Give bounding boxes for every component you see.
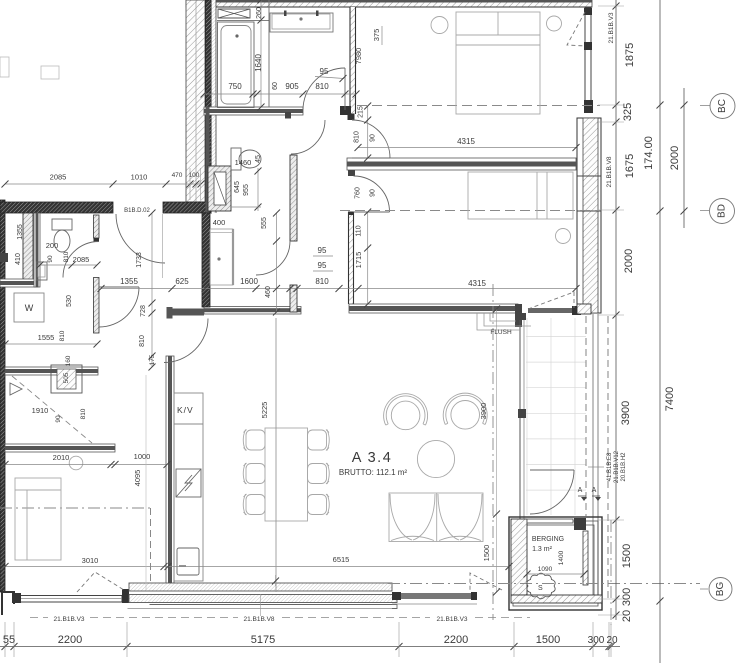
svg-text:B1B.D.02: B1B.D.02 bbox=[124, 208, 150, 214]
svg-text:20.B1B.H2: 20.B1B.H2 bbox=[621, 452, 627, 482]
svg-text:4315: 4315 bbox=[457, 137, 475, 146]
vchain left mid bbox=[151, 213, 153, 367]
svg-text:S: S bbox=[538, 585, 543, 592]
axis BD bbox=[340, 210, 600, 212]
armchair 2 bbox=[443, 393, 487, 429]
glass facade living-terrace bbox=[519, 315, 521, 592]
svg-text:2000: 2000 bbox=[623, 249, 635, 273]
window 21.B1B.V8 band1 bbox=[129, 583, 392, 591]
svg-text:1500: 1500 bbox=[621, 544, 633, 568]
svg-text:905: 905 bbox=[285, 82, 299, 91]
svg-text:21.B1B.V8: 21.B1B.V8 bbox=[243, 616, 274, 623]
vchain kitchen bbox=[276, 213, 278, 312]
svg-text:810: 810 bbox=[315, 82, 329, 91]
window 21.B1B.V3 right bbox=[392, 592, 401, 600]
door wc bbox=[291, 120, 325, 154]
svg-text:2200: 2200 bbox=[58, 634, 82, 646]
grid bubble BG bbox=[700, 588, 708, 590]
window 21.B1B.V3 left bbox=[15, 596, 122, 603]
wall right exterior hatched bbox=[577, 118, 601, 313]
svg-text:1640: 1640 bbox=[254, 54, 263, 72]
svg-text:460: 460 bbox=[265, 286, 272, 298]
svg-text:175: 175 bbox=[149, 354, 156, 365]
dim line 5225 bbox=[275, 318, 277, 592]
berging outer bbox=[509, 517, 602, 610]
svg-text:BG: BG bbox=[715, 582, 726, 597]
sliding door bedroom2 terrace bbox=[528, 308, 573, 313]
axis BC bbox=[357, 105, 600, 107]
sofa bbox=[389, 493, 483, 542]
svg-text:1000: 1000 bbox=[134, 452, 151, 461]
kitchen counter bbox=[210, 229, 233, 285]
W closet box bbox=[14, 293, 44, 322]
svg-text:1733: 1733 bbox=[136, 252, 143, 268]
door bathroom bbox=[303, 68, 345, 110]
berging left wall bbox=[511, 519, 527, 595]
svg-text:810: 810 bbox=[315, 277, 329, 286]
dim chain entry 2085/1010/470/100 bbox=[5, 183, 201, 185]
svg-text:W: W bbox=[25, 303, 34, 313]
svg-text:55: 55 bbox=[3, 634, 15, 646]
svg-text:2085: 2085 bbox=[73, 255, 90, 264]
bed bedroom1 bbox=[431, 12, 562, 114]
axis vertical living bbox=[492, 284, 494, 620]
door wc2 bbox=[63, 242, 99, 278]
wall entry north bbox=[0, 202, 113, 213]
wall storage north bbox=[5, 367, 98, 375]
door storage bbox=[99, 287, 139, 327]
svg-text:20: 20 bbox=[621, 610, 633, 622]
wall wc2 bottom bbox=[0, 279, 38, 287]
dashed opening bed3 bbox=[150, 508, 152, 583]
svg-text:5225: 5225 bbox=[260, 402, 269, 419]
wall left block bbox=[0, 253, 8, 262]
svg-text:21.B1B.V3: 21.B1B.V3 bbox=[53, 616, 84, 623]
dim 4315 bedroom2 bbox=[339, 288, 576, 290]
svg-text:760: 760 bbox=[355, 187, 362, 199]
svg-text:FLUSH: FLUSH bbox=[490, 329, 512, 336]
svg-text:955: 955 bbox=[243, 184, 250, 196]
dim line right second bbox=[659, 0, 661, 663]
svg-text:A: A bbox=[592, 487, 597, 494]
armchair 1 bbox=[384, 394, 428, 430]
shaft box bbox=[51, 365, 82, 393]
svg-text:4095: 4095 bbox=[133, 470, 142, 487]
berging shrub bbox=[527, 573, 555, 599]
svg-text:90: 90 bbox=[370, 134, 377, 142]
svg-text:645: 645 bbox=[234, 181, 241, 193]
wall corner band left bbox=[186, 0, 205, 202]
wall wc2 right bbox=[34, 213, 40, 287]
storage diagonal bbox=[12, 376, 92, 443]
svg-text:1355: 1355 bbox=[17, 224, 24, 240]
svg-text:2010: 2010 bbox=[53, 453, 70, 462]
svg-text:95: 95 bbox=[318, 261, 327, 270]
dim line right third bbox=[683, 88, 685, 228]
svg-text:200: 200 bbox=[46, 241, 59, 250]
svg-text:1010: 1010 bbox=[131, 173, 148, 182]
wall left exterior bbox=[0, 200, 5, 592]
svg-text:41.B1B.E8: 41.B1B.E8 bbox=[607, 452, 613, 481]
stray neighbour marks bbox=[0, 57, 9, 77]
svg-text:90: 90 bbox=[47, 255, 54, 263]
svg-text:BRUTTO: 112.1 m²: BRUTTO: 112.1 m² bbox=[339, 468, 408, 477]
washer X-box bbox=[218, 9, 250, 18]
grid bubble BD bbox=[700, 210, 709, 212]
door living bbox=[164, 319, 208, 363]
svg-text:410: 410 bbox=[15, 253, 22, 265]
wall shaft left bbox=[23, 213, 33, 283]
wall storage south bbox=[5, 444, 115, 452]
door dashes bedroom2 terrace bbox=[528, 292, 574, 309]
dim line living-terrace bbox=[496, 309, 498, 592]
shaft box bathroom bbox=[208, 166, 231, 211]
svg-text:3900: 3900 bbox=[620, 401, 632, 425]
door bedroom2 bbox=[354, 176, 390, 212]
svg-text:1675: 1675 bbox=[624, 154, 636, 178]
terrace tile grid bbox=[526, 318, 586, 515]
svg-text:810: 810 bbox=[63, 251, 70, 262]
wall hall-bedroom1 thin bbox=[350, 7, 356, 114]
wall bathroom south end piece bbox=[340, 106, 351, 115]
svg-text:2200: 2200 bbox=[444, 634, 468, 646]
bed bedroom2 bbox=[468, 172, 573, 244]
svg-text:BC: BC bbox=[717, 99, 728, 113]
basin wc2 bbox=[36, 262, 47, 280]
window right facade bedroom1 bbox=[585, 8, 591, 106]
wall bedroom2 left thin bbox=[348, 170, 355, 176]
svg-text:2000: 2000 bbox=[669, 146, 681, 170]
svg-text:90: 90 bbox=[370, 189, 377, 197]
svg-text:5175: 5175 bbox=[251, 634, 275, 646]
svg-text:1090: 1090 bbox=[538, 566, 553, 573]
wall bedroom divider bbox=[347, 158, 576, 170]
svg-text:1460: 1460 bbox=[235, 158, 252, 167]
svg-text:1.3 m²: 1.3 m² bbox=[532, 546, 553, 553]
svg-text:810: 810 bbox=[80, 408, 87, 419]
facade pier bbox=[122, 589, 129, 603]
svg-text:95: 95 bbox=[318, 246, 327, 255]
svg-text:1910: 1910 bbox=[32, 406, 49, 415]
axis BG bbox=[388, 583, 700, 585]
slab edge lines bbox=[592, 313, 594, 602]
wall corner bottom-left bbox=[2, 592, 14, 615]
door dashes bedroom1 balcony bbox=[567, 12, 585, 46]
svg-text:470: 470 bbox=[172, 172, 183, 179]
door kitchen bbox=[256, 241, 290, 275]
svg-text:A 3.4: A 3.4 bbox=[352, 450, 393, 466]
svg-text:728: 728 bbox=[140, 305, 147, 317]
svg-text:90: 90 bbox=[55, 415, 62, 423]
svg-text:4315: 4315 bbox=[468, 279, 486, 288]
door entry B1B.D.02 bbox=[116, 214, 165, 263]
svg-text:1875: 1875 bbox=[624, 43, 636, 67]
svg-text:6515: 6515 bbox=[333, 555, 350, 564]
svg-text:530: 530 bbox=[66, 295, 73, 307]
svg-text:215: 215 bbox=[358, 106, 365, 118]
svg-text:1500: 1500 bbox=[482, 545, 491, 562]
vchain bedroom doors bbox=[367, 106, 369, 158]
toilet wc1 bbox=[231, 148, 241, 170]
svg-text:21.B1B.V8: 21.B1B.V8 bbox=[606, 156, 613, 187]
svg-text:300: 300 bbox=[621, 588, 633, 606]
door berging bbox=[530, 470, 574, 514]
berging top wall bbox=[527, 519, 573, 523]
svg-text:505: 505 bbox=[63, 372, 70, 383]
bed room3 bbox=[15, 478, 61, 560]
axis vertical berging right bbox=[610, 520, 612, 625]
wall bathroom south bbox=[204, 107, 303, 115]
svg-text:3010: 3010 bbox=[82, 556, 99, 565]
svg-text:21.B1B.V12: 21.B1B.V12 bbox=[614, 450, 620, 483]
toilet wc2 bbox=[52, 219, 72, 230]
axis horizontal bed3 bbox=[0, 507, 152, 509]
window code labels bottom bbox=[30, 617, 48, 619]
svg-text:1555: 1555 bbox=[38, 333, 55, 342]
window 21.B1B.V8 band2 bbox=[129, 595, 397, 603]
svg-text:21.B1B.V3: 21.B1B.V3 bbox=[608, 12, 615, 43]
wall top exterior bbox=[186, 0, 592, 7]
svg-text:1400: 1400 bbox=[558, 550, 565, 565]
svg-text:810: 810 bbox=[59, 330, 66, 341]
coffee table bbox=[417, 440, 454, 477]
bottom box kv bbox=[177, 548, 199, 575]
dim chain hall bbox=[101, 288, 339, 290]
K/V closet bbox=[174, 393, 203, 581]
dim chain 2010/1000 bbox=[5, 464, 167, 466]
electric panel bbox=[176, 469, 201, 497]
bathtub bbox=[218, 22, 255, 108]
dim chain bottom bbox=[0, 646, 620, 648]
grid bubble BC bbox=[700, 105, 710, 107]
berging inner east wall bbox=[583, 531, 588, 585]
svg-text:160: 160 bbox=[65, 355, 72, 366]
terrace edge dashed bbox=[585, 316, 587, 516]
svg-text:555: 555 bbox=[261, 217, 268, 229]
svg-text:45: 45 bbox=[255, 155, 262, 163]
svg-text:750: 750 bbox=[228, 82, 242, 91]
svg-text:1355: 1355 bbox=[120, 277, 138, 286]
wall bedroom2 south bbox=[349, 304, 518, 313]
wall kitchen jog bbox=[173, 309, 205, 316]
svg-text:810: 810 bbox=[354, 131, 361, 143]
svg-text:BD: BD bbox=[717, 204, 728, 218]
svg-text:7980: 7980 bbox=[354, 48, 363, 65]
svg-text:21.B1B.V3: 21.B1B.V3 bbox=[436, 616, 467, 623]
svg-text:375: 375 bbox=[372, 29, 381, 42]
dining table bbox=[243, 428, 329, 521]
dim chain 3010/6515 bbox=[5, 566, 509, 568]
svg-text:7400: 7400 bbox=[664, 387, 676, 411]
svg-text:174.00: 174.00 bbox=[643, 136, 655, 170]
partition bathtub bbox=[268, 0, 270, 107]
svg-text:K/V: K/V bbox=[177, 405, 194, 415]
dim chain left wc2 bbox=[40, 264, 97, 266]
svg-text:3900: 3900 bbox=[479, 403, 488, 420]
svg-text:BERGING: BERGING bbox=[532, 536, 564, 543]
dim chain bathroom bbox=[204, 93, 356, 95]
svg-text:810: 810 bbox=[139, 335, 146, 347]
washbasin counter bbox=[270, 13, 333, 32]
svg-text:2085: 2085 bbox=[50, 173, 67, 182]
wall wc left bbox=[206, 107, 210, 213]
svg-text:1715: 1715 bbox=[354, 252, 363, 269]
door dashes living window bbox=[77, 572, 124, 592]
dim chain 1555 bbox=[5, 343, 97, 345]
wall hall-living bbox=[166, 356, 174, 590]
wall bathroom left exterior bbox=[206, 0, 212, 213]
svg-text:400: 400 bbox=[213, 218, 226, 227]
svg-text:325: 325 bbox=[622, 103, 634, 121]
svg-text:625: 625 bbox=[175, 277, 189, 286]
wall wc-hall stub bbox=[285, 112, 291, 119]
wall hall-wc2 bbox=[94, 215, 100, 238]
wall hall-kitchen bbox=[202, 213, 210, 307]
dim 4315 bedroom1 bbox=[358, 147, 576, 149]
door dashes terrace gate bbox=[470, 573, 502, 590]
berging south bbox=[511, 595, 602, 603]
dim chain bath vertical bbox=[260, 0, 262, 107]
ceiling point bbox=[69, 456, 83, 470]
svg-text:95: 95 bbox=[320, 67, 329, 76]
svg-text:1500: 1500 bbox=[536, 634, 560, 646]
svg-text:A: A bbox=[578, 487, 583, 494]
dim chain right bbox=[615, 0, 617, 620]
svg-text:60: 60 bbox=[272, 82, 279, 90]
svg-text:110: 110 bbox=[356, 225, 363, 236]
svg-text:20: 20 bbox=[606, 635, 618, 646]
svg-text:260: 260 bbox=[256, 7, 263, 19]
svg-text:300: 300 bbox=[588, 635, 605, 646]
door bedroom1 bbox=[352, 120, 390, 158]
wall kitchen north bbox=[204, 307, 301, 315]
flush threshold bbox=[477, 313, 531, 330]
svg-text:1600: 1600 bbox=[240, 277, 258, 286]
